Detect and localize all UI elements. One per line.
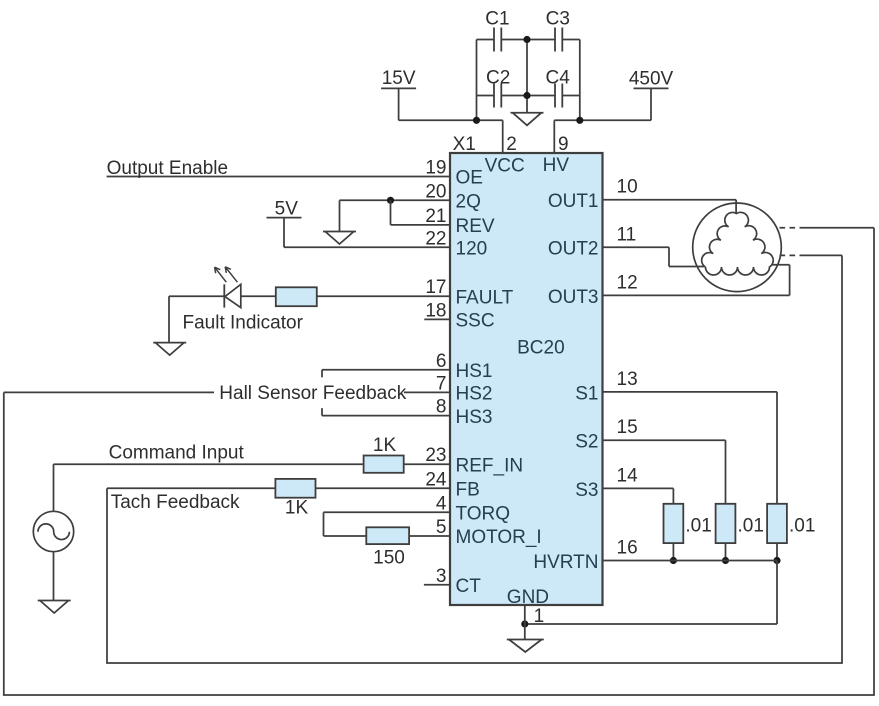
svg-text:9: 9	[558, 134, 569, 155]
svg-text:19: 19	[425, 158, 446, 179]
svg-text:HS2: HS2	[456, 384, 493, 405]
svg-text:HVRTN: HVRTN	[533, 552, 598, 573]
svg-text:C2: C2	[486, 68, 510, 89]
svg-text:14: 14	[617, 465, 639, 486]
svg-text:REF_IN: REF_IN	[456, 455, 524, 476]
svg-text:17: 17	[425, 277, 446, 298]
svg-text:2Q: 2Q	[456, 192, 481, 213]
svg-text:20: 20	[425, 181, 446, 202]
svg-text:21: 21	[425, 206, 446, 227]
svg-text:15V: 15V	[382, 68, 416, 89]
svg-text:5: 5	[436, 517, 447, 538]
svg-text:HS3: HS3	[456, 407, 493, 428]
svg-text:24: 24	[425, 469, 447, 490]
svg-text:.01: .01	[738, 516, 764, 537]
svg-text:X1: X1	[453, 134, 476, 155]
svg-text:2: 2	[506, 134, 517, 155]
svg-text:8: 8	[436, 397, 447, 418]
svg-text:Output Enable: Output Enable	[107, 158, 228, 179]
svg-text:REV: REV	[456, 216, 495, 237]
svg-text:OUT3: OUT3	[548, 287, 599, 308]
svg-text:S2: S2	[575, 432, 598, 453]
svg-text:13: 13	[617, 369, 638, 390]
svg-text:Hall Sensor Feedback: Hall Sensor Feedback	[219, 383, 406, 404]
svg-text:OUT2: OUT2	[548, 239, 599, 260]
svg-text:HS1: HS1	[456, 361, 493, 382]
svg-text:1: 1	[534, 606, 545, 627]
svg-text:S1: S1	[575, 383, 598, 404]
svg-text:1K: 1K	[285, 498, 309, 519]
svg-text:120: 120	[456, 239, 488, 260]
svg-text:FAULT: FAULT	[456, 287, 514, 308]
svg-text:4: 4	[436, 493, 447, 514]
svg-text:FB: FB	[456, 480, 480, 501]
svg-text:3: 3	[436, 566, 447, 587]
svg-text:150: 150	[373, 548, 405, 569]
svg-text:SSC: SSC	[456, 311, 495, 332]
svg-text:7: 7	[436, 373, 447, 394]
svg-text:C3: C3	[546, 9, 570, 30]
svg-text:BC20: BC20	[517, 338, 565, 359]
svg-text:C1: C1	[485, 9, 509, 30]
svg-text:Command Input: Command Input	[109, 443, 245, 464]
svg-text:VCC: VCC	[485, 156, 525, 177]
svg-text:GND: GND	[507, 587, 549, 608]
svg-text:CT: CT	[456, 576, 482, 597]
svg-text:15: 15	[617, 417, 638, 438]
svg-text:Tach Feedback: Tach Feedback	[111, 492, 240, 513]
svg-text:OE: OE	[456, 168, 483, 189]
svg-text:S3: S3	[575, 480, 598, 501]
svg-text:18: 18	[425, 300, 446, 321]
svg-text:12: 12	[617, 272, 638, 293]
svg-text:HV: HV	[543, 155, 570, 176]
svg-text:16: 16	[617, 538, 638, 559]
svg-text:.01: .01	[685, 516, 711, 537]
svg-text:1K: 1K	[373, 435, 397, 456]
svg-text:OUT1: OUT1	[548, 191, 599, 212]
svg-text:11: 11	[617, 224, 637, 245]
svg-text:MOTOR_I: MOTOR_I	[456, 527, 542, 548]
svg-text:6: 6	[436, 351, 447, 372]
svg-text:.01: .01	[789, 516, 815, 537]
svg-text:5V: 5V	[275, 199, 299, 220]
svg-text:TORQ: TORQ	[456, 504, 511, 525]
svg-text:450V: 450V	[629, 69, 674, 90]
svg-text:Fault Indicator: Fault Indicator	[183, 313, 304, 334]
svg-text:22: 22	[425, 228, 446, 249]
svg-text:C4: C4	[546, 68, 571, 89]
svg-text:10: 10	[617, 177, 638, 198]
svg-text:23: 23	[425, 445, 446, 466]
